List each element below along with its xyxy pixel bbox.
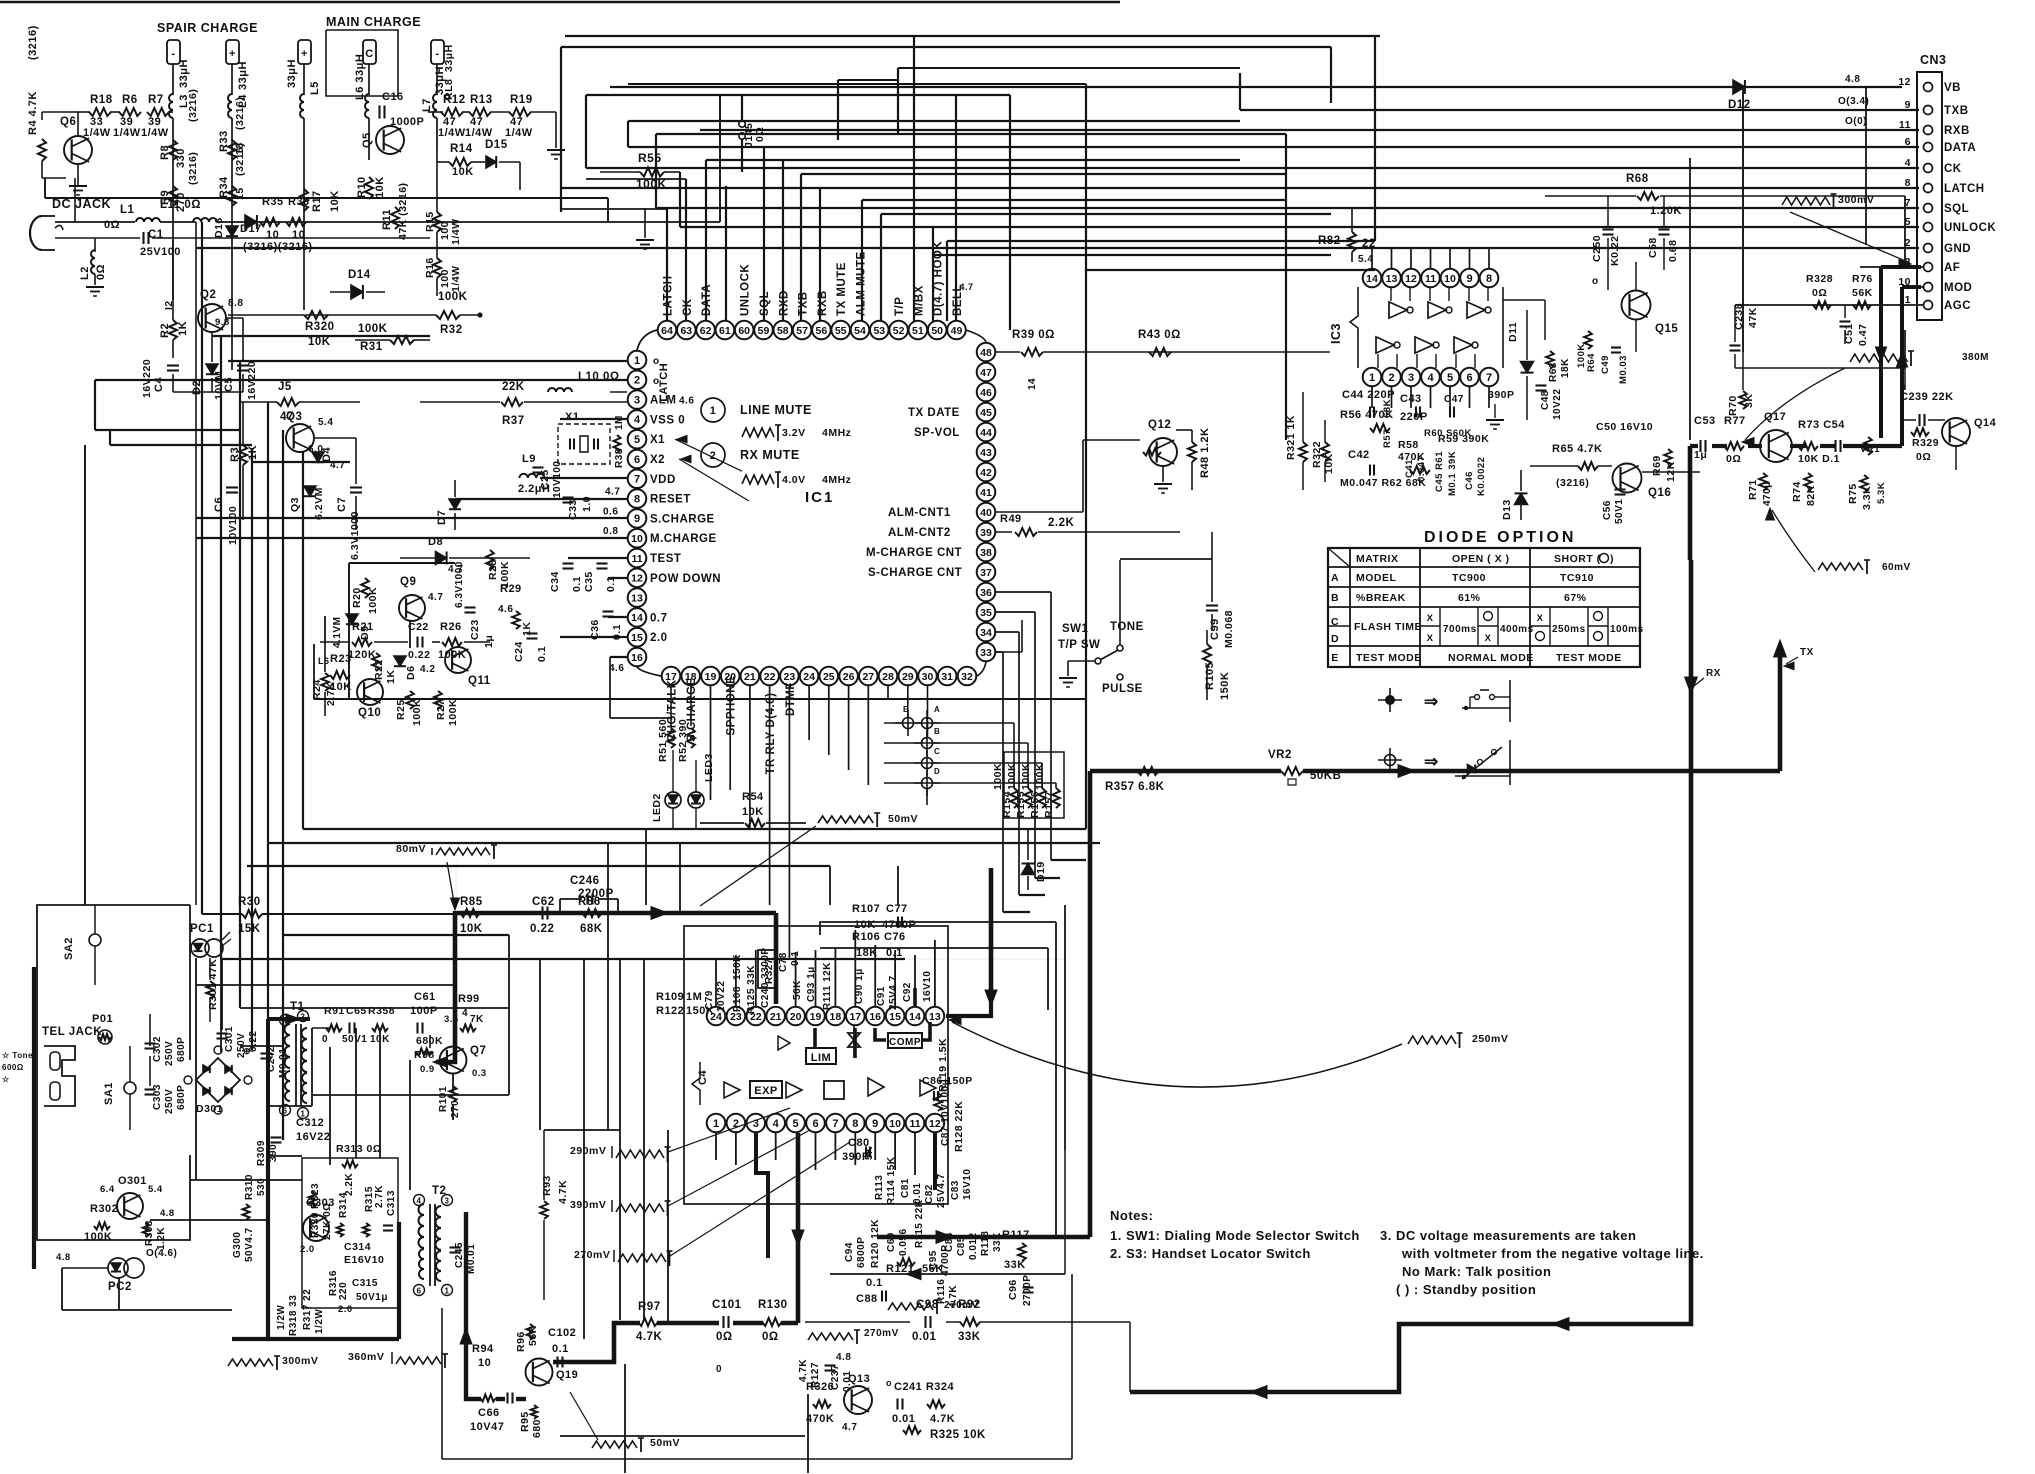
svg-text:2.2K: 2.2K [344, 1173, 355, 1196]
svg-text:(3216): (3216) [1556, 477, 1589, 489]
resistor R327 boxed [758, 950, 776, 988]
svg-text:6.2VM: 6.2VM [313, 487, 325, 520]
svg-text:Q19: Q19 [556, 1369, 578, 1381]
svg-text:1/4W: 1/4W [505, 127, 533, 139]
terminal + [298, 40, 311, 64]
wire thick Q17 row [1690, 444, 1698, 448]
svg-text:4.2: 4.2 [420, 664, 435, 675]
svg-text:(3216): (3216) [27, 25, 39, 60]
CN3 pin 2 GND [1924, 244, 1933, 253]
svg-text:C65: C65 [346, 1005, 367, 1017]
svg-text:8: 8 [634, 493, 640, 505]
wire bottom pins hooks [750, 828, 829, 830]
wire left margin long [84, 445, 86, 905]
svg-text:LIM: LIM [811, 1052, 831, 1064]
svg-text:D11: D11 [1507, 322, 1519, 342]
wire thick TX riser [1778, 645, 1783, 771]
svg-text:R10: R10 [356, 176, 368, 198]
node RX MUTE callout 2 [701, 443, 725, 467]
svg-text:3: 3 [445, 1197, 450, 1206]
svg-text:15: 15 [889, 1011, 901, 1023]
svg-text:AF: AF [1944, 262, 1960, 274]
svg-text:2.0: 2.0 [338, 1304, 353, 1315]
svg-text:DIODE OPTION: DIODE OPTION [1424, 529, 1576, 546]
svg-text:2.2μH: 2.2μH [518, 483, 550, 495]
svg-text:4: 4 [462, 1008, 468, 1019]
svg-text:6.0: 6.0 [308, 444, 323, 455]
svg-text:5K: 5K [864, 1146, 875, 1160]
svg-text:100K: 100K [1020, 763, 1032, 790]
svg-text:No Mark: Talk position: No Mark: Talk position [1402, 1264, 1551, 1279]
svg-text:33: 33 [980, 647, 992, 659]
svg-text:10K: 10K [854, 919, 876, 931]
wire thick MOD feed [1902, 285, 1921, 289]
svg-text:4.8: 4.8 [160, 1208, 175, 1219]
wire thick ic2 return [877, 1235, 1090, 1240]
wire mid y829 [303, 828, 1086, 830]
svg-text:100K: 100K [1006, 763, 1018, 790]
IC3 pin 7 [1480, 368, 1499, 387]
svg-text:D13: D13 [1501, 499, 1513, 520]
svg-text:13: 13 [631, 592, 643, 604]
svg-text:0.01: 0.01 [892, 1413, 915, 1425]
svg-text:R70: R70 [1727, 395, 1739, 416]
IC3 pin 2 [1382, 368, 1401, 387]
IC2 bottom pins 1-12 [707, 1114, 726, 1133]
svg-text:C45 R61: C45 R61 [1434, 451, 1445, 492]
svg-text:PC1: PC1 [190, 923, 214, 935]
matrix node D [914, 782, 940, 784]
svg-text:18: 18 [830, 1011, 842, 1023]
svg-text:E16V10: E16V10 [344, 1254, 384, 1266]
svg-text:L9: L9 [522, 453, 536, 465]
svg-text:1: 1 [1369, 372, 1375, 384]
svg-text:6800P: 6800P [856, 1237, 867, 1268]
svg-text:3: 3 [1408, 372, 1414, 384]
squiggle 300mV bottom left [228, 1359, 273, 1366]
svg-text:2. S3: Handset Locator: 2. S3: Handset Locator Switch [1110, 1246, 1311, 1261]
svg-text:R7: R7 [148, 94, 164, 106]
svg-text:O(0): O(0) [1845, 116, 1867, 127]
wire bus x680 [679, 172, 681, 227]
svg-text:47K: 47K [1747, 307, 1759, 328]
wire bus y214 [881, 213, 1331, 215]
svg-text:270mV: 270mV [574, 1249, 610, 1261]
squiggle 380mV right [1850, 354, 1908, 362]
op-amp tri small [778, 1036, 790, 1050]
svg-text:55: 55 [835, 325, 847, 337]
wire mid y912 [1003, 911, 1030, 913]
svg-text:100K: 100K [358, 323, 388, 335]
transformer T1 secondary wires [267, 1018, 269, 1020]
wire mid y843 [268, 842, 1100, 844]
svg-text:0.22: 0.22 [530, 923, 554, 935]
svg-text:58: 58 [777, 325, 789, 337]
wire bus y130 [700, 129, 1919, 131]
svg-text:R97: R97 [638, 1301, 661, 1313]
svg-text:R2: R2 [159, 323, 171, 338]
svg-text:5.3K: 5.3K [1876, 482, 1887, 504]
wire thick down to Q7 [436, 911, 455, 1062]
IC2 top pins 24-13 [707, 1007, 726, 1026]
svg-text:C250: C250 [1591, 235, 1603, 262]
svg-text:SPPHONE: SPPHONE [726, 676, 738, 736]
svg-text:0: 0 [716, 1364, 722, 1375]
wire bottom-left mesh horizontals [196, 984, 455, 986]
IC3 pin 14 [1363, 269, 1382, 288]
svg-text:-: - [171, 48, 175, 60]
svg-text:Q15: Q15 [1655, 323, 1678, 335]
wire q16 right [1642, 471, 1700, 473]
svg-text:M0.01: M0.01 [278, 1048, 289, 1078]
wire bus y208 [656, 207, 1919, 209]
wire leftmid y462 [252, 461, 350, 463]
wire right verticals [1865, 87, 1867, 245]
svg-text:16: 16 [631, 652, 643, 664]
wire bottom-left mesh verticals [220, 959, 222, 1053]
wire mid y959 [221, 958, 905, 960]
svg-text:D(4.7) HOOK: D(4.7) HOOK [933, 241, 945, 316]
svg-text:100P: 100P [410, 1005, 438, 1017]
svg-text:R310: R310 [244, 1174, 255, 1200]
svg-text:L6 33μH: L6 33μH [354, 54, 366, 100]
svg-text:R54: R54 [742, 791, 764, 803]
inverter gates bottom row [1376, 337, 1394, 353]
svg-text:R16: R16 [424, 257, 436, 278]
wire mid y866 [247, 865, 830, 867]
svg-text:R19: R19 [510, 94, 533, 106]
svg-text:0.8: 0.8 [603, 526, 618, 537]
CN3 pin 5 UNLOCK [1924, 223, 1933, 232]
svg-text:1/4W: 1/4W [113, 127, 141, 139]
svg-text:8: 8 [1905, 177, 1911, 189]
svg-text:33μH: 33μH [286, 59, 298, 88]
svg-text:L1: L1 [120, 204, 135, 216]
svg-text:DATA: DATA [1944, 142, 1976, 154]
svg-text:R93: R93 [541, 1175, 553, 1196]
svg-text:%BREAK: %BREAK [1356, 592, 1406, 604]
svg-text:R325 10K: R325 10K [930, 1429, 986, 1441]
transistor Q11 [445, 647, 471, 673]
wire thick RX main vertical [1130, 560, 1691, 1392]
wire bus y36 [565, 35, 1380, 37]
transistor Q7 [440, 1047, 467, 1074]
svg-text:CN3: CN3 [1920, 53, 1947, 67]
svg-text:11: 11 [631, 553, 642, 565]
svg-text:250mV: 250mV [1472, 1033, 1508, 1045]
svg-text:C24: C24 [513, 641, 525, 662]
wire margin x221 [220, 336, 222, 959]
svg-text:TX: TX [1800, 647, 1814, 658]
wire bus y87 [610, 86, 1902, 88]
wire top edge artifact [0, 1, 1120, 4]
svg-text:100K: 100K [367, 587, 379, 614]
wire leftmid y538 [196, 537, 628, 539]
svg-text:1μ: 1μ [1694, 449, 1707, 461]
svg-text:C46: C46 [1464, 471, 1475, 490]
wire MOD stub [1902, 286, 1923, 288]
svg-text:59: 59 [758, 325, 770, 337]
svg-text:GND: GND [1944, 243, 1971, 255]
svg-text:⇒: ⇒ [1424, 752, 1439, 771]
svg-text:R122: R122 [656, 1005, 684, 1017]
diode D13 [1515, 493, 1528, 504]
wire bottom left misc [201, 905, 203, 914]
svg-text:54: 54 [854, 325, 866, 337]
svg-text:(3216): (3216) [234, 143, 246, 176]
wire AF stub [1860, 266, 1923, 268]
wire bus x1010 [1009, 95, 1011, 330]
svg-text:33μH: 33μH [237, 61, 249, 90]
wire bus x862 [861, 200, 863, 321]
wire bus y134 [656, 133, 1286, 135]
svg-text:TEST MODE: TEST MODE [1556, 652, 1622, 664]
svg-text:4.6: 4.6 [679, 396, 694, 407]
svg-text:25V100: 25V100 [140, 246, 181, 258]
svg-text:50V1: 50V1 [1614, 499, 1625, 524]
wire margin x110 [109, 430, 111, 445]
svg-text:67%: 67% [1564, 592, 1587, 604]
svg-text:12: 12 [1405, 273, 1417, 285]
svg-text:680P: 680P [176, 1085, 187, 1110]
wire bus x586 [585, 95, 587, 168]
legend filled node [1378, 699, 1402, 701]
svg-text:2: 2 [634, 375, 640, 387]
svg-text:K0.0022: K0.0022 [1476, 457, 1487, 496]
svg-text:33μH: 33μH [443, 44, 455, 72]
svg-text:G300: G300 [232, 1232, 243, 1258]
svg-text:16V10: 16V10 [922, 971, 933, 1002]
svg-text:D: D [934, 767, 940, 776]
svg-text:0.47: 0.47 [1857, 324, 1869, 346]
svg-text:R37: R37 [502, 415, 525, 427]
svg-text:34: 34 [980, 627, 992, 639]
svg-text:13: 13 [1386, 273, 1398, 285]
svg-text:UNLOCK: UNLOCK [1944, 222, 1996, 234]
svg-text:10: 10 [1444, 273, 1456, 285]
svg-text:LED2: LED2 [651, 793, 663, 822]
svg-text:0Ω: 0Ω [762, 1331, 779, 1343]
svg-text:7: 7 [1486, 372, 1492, 384]
svg-text:42: 42 [980, 467, 992, 479]
svg-text:470μ: 470μ [1762, 481, 1773, 506]
wire matrix rows [884, 722, 902, 724]
svg-text:7K: 7K [470, 1014, 484, 1025]
svg-text:MOD: MOD [1944, 282, 1972, 294]
svg-text:R48 1.2K: R48 1.2K [1199, 428, 1211, 478]
IC3 pin 13 [1382, 269, 1401, 288]
svg-text:2.7K: 2.7K [325, 682, 337, 706]
terminal - [167, 40, 180, 64]
wire bus x933 [932, 228, 934, 321]
svg-text:C6: C6 [213, 497, 225, 512]
svg-text:3.3K: 3.3K [1861, 486, 1873, 510]
svg-text:2.7K: 2.7K [374, 1185, 385, 1208]
svg-text:2.0: 2.0 [650, 632, 668, 644]
svg-text:61: 61 [719, 325, 731, 337]
IC3 outline [1350, 287, 1358, 368]
svg-text:1/4W: 1/4W [438, 127, 466, 139]
svg-text:4.7: 4.7 [428, 592, 443, 603]
svg-text:RXB: RXB [817, 290, 829, 316]
svg-text:3. DC voltage measurements ar: 3. DC voltage measurements are taken [1380, 1228, 1636, 1243]
svg-text:Q11: Q11 [468, 675, 491, 687]
svg-text:R118: R118 [980, 1231, 991, 1256]
svg-text:700ms: 700ms [1443, 624, 1477, 635]
svg-text:1.20K: 1.20K [1650, 205, 1682, 217]
svg-text:82K: 82K [1805, 485, 1817, 506]
inductor L5 33uH [303, 64, 305, 95]
svg-text:0.6: 0.6 [603, 506, 618, 517]
svg-text:SA1: SA1 [103, 1082, 115, 1105]
wire ic3 to q15 [1503, 299, 1545, 301]
wire bus x1375 [1374, 36, 1376, 241]
wire bus y47 [561, 46, 1331, 48]
svg-text:41: 41 [980, 487, 992, 499]
svg-text:Q3: Q3 [286, 411, 302, 423]
svg-text:D14: D14 [348, 269, 371, 281]
svg-text:1000P: 1000P [390, 116, 424, 128]
wire C61 link [429, 1035, 431, 1048]
svg-text:O301: O301 [118, 1175, 147, 1187]
svg-text:50mV: 50mV [650, 1437, 680, 1449]
svg-text:R328: R328 [1806, 273, 1833, 285]
wire drop pin22 [769, 686, 771, 905]
svg-text:R43 0Ω: R43 0Ω [1138, 329, 1181, 341]
svg-text:RXD: RXD [778, 290, 790, 316]
svg-text:680P: 680P [176, 1037, 187, 1062]
svg-text:2: 2 [710, 450, 717, 462]
svg-text:(3216): (3216) [234, 97, 246, 130]
svg-text:16V10: 16V10 [962, 1169, 973, 1200]
svg-text:0.01: 0.01 [912, 1331, 936, 1343]
svg-text:C92: C92 [902, 982, 913, 1002]
svg-text:R321 1K: R321 1K [1285, 415, 1297, 460]
matrix node B [914, 742, 940, 744]
svg-text:4.8: 4.8 [1845, 74, 1860, 85]
svg-text:4.7: 4.7 [959, 282, 973, 292]
svg-text:R74: R74 [1791, 481, 1803, 502]
op-amp tri 3 [868, 1078, 884, 1096]
wire bus x956 [955, 95, 957, 321]
wire bus x947 [946, 241, 948, 321]
svg-text:Q10: Q10 [358, 707, 381, 719]
svg-text:R309: R309 [256, 1140, 267, 1166]
svg-text:L6: L6 [318, 656, 330, 666]
svg-text:R106: R106 [852, 931, 880, 943]
svg-text:R113: R113 [874, 1175, 885, 1200]
svg-text:C16: C16 [382, 91, 404, 103]
wire pin36 right [995, 591, 1051, 593]
svg-text:C245: C245 [454, 1242, 465, 1268]
svg-text:R26: R26 [440, 621, 462, 633]
svg-text:0Ω: 0Ω [1726, 453, 1741, 465]
svg-text:10V22: 10V22 [1552, 389, 1563, 420]
svg-text:27: 27 [862, 671, 874, 683]
wire margin x268 [267, 402, 269, 1122]
svg-text:M/BX: M/BX [913, 285, 925, 316]
svg-text:39: 39 [980, 527, 992, 539]
svg-text:22: 22 [1362, 238, 1376, 250]
svg-text:0.1: 0.1 [866, 1277, 883, 1289]
IC1 X1 X2 arrows [675, 439, 742, 471]
wire bus x1086 [1085, 84, 1087, 829]
svg-text:0Ω: 0Ω [95, 264, 107, 280]
svg-text:R85: R85 [460, 896, 483, 908]
svg-text:LATCH: LATCH [1944, 183, 1985, 195]
svg-text:13: 13 [929, 1011, 941, 1023]
wire thick VR2 line [1090, 769, 1281, 774]
svg-text:C96: C96 [1007, 1279, 1019, 1300]
svg-text:1K: 1K [177, 321, 189, 336]
svg-text:19: 19 [810, 1011, 822, 1023]
block LIM [806, 1048, 836, 1064]
svg-text:6: 6 [634, 454, 640, 466]
svg-text:40: 40 [980, 507, 992, 519]
IC2 body outline [692, 1062, 700, 1105]
svg-text:44: 44 [980, 427, 992, 439]
table header diagonal [1328, 548, 1350, 567]
svg-text:4.7K: 4.7K [798, 1359, 809, 1382]
wire bus y110 [1240, 109, 1919, 111]
wire drop pin19 [710, 686, 712, 800]
wire T1 pin column [311, 1028, 313, 1106]
wire r106 box [820, 922, 1056, 935]
svg-text:0.1: 0.1 [571, 576, 583, 592]
svg-text:9: 9 [1466, 273, 1472, 285]
svg-text:C101: C101 [712, 1299, 742, 1311]
svg-text:1: 1 [634, 355, 640, 367]
diode bridge D301 [196, 1058, 240, 1102]
svg-text:68K: 68K [580, 923, 603, 935]
svg-text:10: 10 [292, 229, 305, 241]
wire bus x726 [725, 186, 727, 321]
wire agc box [1735, 330, 1905, 368]
svg-text:5: 5 [634, 434, 640, 446]
svg-text:R320: R320 [305, 321, 335, 333]
wire bus y168 [586, 167, 1919, 169]
inductor L7 33uH [436, 64, 438, 95]
svg-text:VSS 0: VSS 0 [650, 414, 685, 426]
svg-text:C87 10V100μ: C87 10V100μ [940, 1079, 951, 1146]
svg-text:33μH: 33μH [178, 59, 190, 88]
svg-text:+: + [229, 48, 236, 60]
svg-text:X: X [1427, 633, 1434, 644]
svg-text:R358: R358 [368, 1005, 395, 1017]
svg-text:M-CHARGE CNT: M-CHARGE CNT [866, 547, 962, 559]
svg-text:100K: 100K [447, 699, 459, 726]
wire leftmid y499 [455, 498, 628, 500]
svg-text:R326: R326 [806, 1381, 834, 1393]
IC3 pin 12 [1402, 269, 1421, 288]
svg-text:0.1: 0.1 [552, 1343, 569, 1355]
svg-text:56K: 56K [792, 980, 803, 1000]
svg-text:(3216): (3216) [187, 152, 199, 185]
wire pin35 right [995, 611, 1035, 613]
svg-text:UNLOCK: UNLOCK [740, 264, 752, 316]
wire bus x783 [782, 160, 784, 321]
wire bus x667 [666, 209, 668, 321]
svg-text:TEST MODE: TEST MODE [1356, 652, 1422, 664]
svg-text:R111 12K: R111 12K [822, 962, 833, 1010]
svg-text:R6: R6 [122, 94, 138, 106]
svg-text:TONE: TONE [1110, 621, 1144, 633]
svg-text:4: 4 [1905, 157, 1911, 169]
svg-text:J5: J5 [278, 381, 292, 393]
IC3 pin 9 [1460, 269, 1479, 288]
svg-text:1. SW1: Dialing Mode Select: 1. SW1: Dialing Mode Selector Switch [1110, 1228, 1360, 1243]
wire leftmid y430 [95, 429, 240, 431]
